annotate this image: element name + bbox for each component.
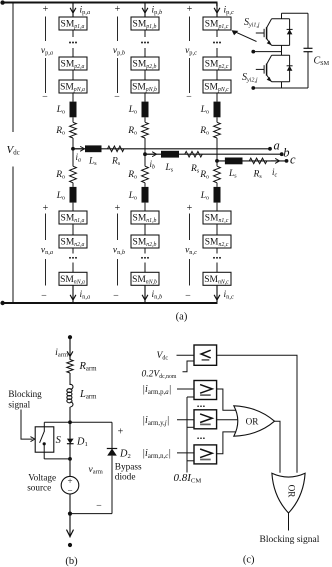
current arrow i_p,c (216, 3, 218, 17)
transistor S_yi1 upper IGBT (256, 19, 293, 46)
voltage v_p,b measurement line (117, 17, 119, 42)
wire (72, 70, 74, 80)
svg-text:+: + (115, 203, 121, 214)
wire 0.8ICM rail (186, 397, 188, 473)
transistor S_yi2 lower IGBT (256, 55, 293, 82)
submodule SM_n2,b (131, 235, 159, 248)
wire input 2 (177, 419, 194, 421)
wire threshold stub 2 (187, 426, 194, 428)
dots lower arm b (141, 257, 143, 259)
dots upper arm a (69, 42, 71, 44)
submodule SM_nN,c (203, 272, 231, 285)
wire (216, 248, 218, 254)
wire (72, 203, 74, 211)
switch S blade and contact (43, 427, 45, 431)
wire (144, 263, 146, 273)
node bottom-left bus terminal (0, 301, 4, 305)
wire (216, 203, 218, 211)
wire threshold stub 1 (187, 396, 194, 398)
resistor R_o lower c (214, 166, 221, 183)
capacitor C_SM (307, 13, 309, 48)
svg-text:c: c (290, 153, 296, 167)
submodule SM_n1,b (131, 211, 159, 224)
current arrow i_n,b (144, 286, 146, 303)
svg-text:+: + (43, 203, 49, 214)
wire (144, 183, 146, 187)
resistor R_o upper a (70, 122, 77, 138)
wire 0.2Vdc threshold input (183, 361, 195, 372)
wire half-bridge midpoint (281, 45, 283, 55)
voltage v_n,a measurement line (45, 214, 47, 241)
svg-text:+: + (187, 4, 193, 15)
wire top DC bus (2, 1, 218, 3)
node top-left bus terminal (0, 0, 4, 4)
wire (72, 248, 74, 254)
diode D1 (67, 439, 74, 444)
svg-text:+: + (187, 203, 193, 214)
submodule SM_nN,a (59, 272, 87, 285)
svg-text:OR: OR (246, 416, 260, 426)
wire comparator output to OR (217, 355, 297, 473)
wire (216, 48, 218, 57)
OR gate 2 (output) (272, 473, 305, 513)
comparator |i_arm| box 2 (194, 410, 217, 429)
submodule SM_p1,c (203, 17, 231, 30)
svg-text:+: + (67, 476, 72, 486)
svg-text:−: − (185, 291, 191, 302)
inductor L_arm (69, 373, 71, 385)
wire input 1 (177, 388, 194, 390)
wire output c (217, 160, 287, 162)
svg-text:+: + (118, 427, 124, 438)
comparator <= symbol (201, 350, 211, 358)
node bottom terminal (251, 86, 255, 90)
svg-text:Blocking signal: Blocking signal (260, 535, 320, 545)
wire (144, 117, 146, 122)
wire (144, 248, 146, 254)
wire (72, 183, 74, 187)
annotation arrow to SM_p1,c (235, 32, 257, 42)
node junction b (143, 152, 147, 156)
inductor L_o upper a (70, 102, 77, 118)
resistor R_arm (67, 360, 73, 374)
resistor R_s c (249, 158, 267, 164)
svg-text:S: S (56, 435, 62, 446)
wire (216, 263, 218, 273)
comparator >= symbol 1 (200, 385, 212, 394)
wire OR1 output (275, 421, 281, 473)
svg-text:signal: signal (8, 400, 30, 410)
submodule SM_n1,a (59, 211, 87, 224)
submodule SM_p2,b (131, 57, 159, 70)
voltage v_n,b measurement line (117, 214, 119, 241)
wire output b (145, 153, 282, 155)
wire (216, 183, 218, 187)
wire (69, 407, 71, 439)
submodule SM_pN,b (131, 80, 159, 93)
wire top of half-bridge (281, 13, 283, 19)
svg-text:OR: OR (287, 485, 297, 499)
comparator |i_arm| box 1 (194, 381, 217, 400)
submodule SM_p2,c (203, 57, 231, 70)
node switch branch top (68, 420, 72, 424)
wire (144, 70, 146, 80)
dots lower arm c (213, 257, 215, 259)
submodule SM_n2,c (203, 235, 231, 248)
wire (144, 224, 146, 235)
wire (72, 263, 74, 273)
svg-text:b: b (283, 146, 289, 160)
wire comparator1 out (217, 389, 236, 410)
wire (216, 93, 218, 102)
submodule SM_nN,b (131, 272, 159, 285)
voltage v_n,c measurement line (189, 214, 191, 241)
current arrow i_arm (69, 337, 71, 360)
node midpoint terminal (251, 50, 255, 54)
switch S box (35, 427, 54, 452)
wire (216, 70, 218, 80)
wire to switch branch (44, 421, 70, 423)
svg-text:−: − (186, 92, 192, 103)
wire (144, 30, 146, 37)
current arrow i_n,a (72, 286, 74, 303)
wire (144, 93, 146, 102)
wire (72, 48, 74, 57)
wire output a (73, 148, 270, 150)
wire (72, 93, 74, 102)
inductor L_o lower b (142, 187, 149, 203)
resistor R_s a (108, 146, 125, 152)
OR gate 1 (234, 406, 275, 436)
inductor L_s a (85, 145, 102, 152)
wire (72, 30, 74, 37)
voltage V_dc measurement line (12, 3, 14, 132)
wire (216, 117, 218, 122)
current arrow i_p,b (144, 3, 146, 17)
node junction c (215, 159, 219, 163)
submodule SM_pN,c (203, 80, 231, 93)
svg-text:Blocking: Blocking (8, 389, 42, 399)
inductor L_s c (225, 158, 243, 165)
svg-text:Bypass: Bypass (115, 463, 142, 473)
current arrow i_a (75, 148, 83, 150)
inductor L_o upper b (142, 102, 149, 118)
resistor R_s b (185, 151, 203, 157)
current arrow i_b (147, 153, 155, 155)
wire (144, 48, 146, 57)
submodule SM_n2,a (59, 235, 87, 248)
node arm input terminal (68, 335, 72, 339)
svg-text:−: − (42, 92, 48, 103)
node terminal c (285, 159, 289, 163)
wire phase rail (72, 138, 74, 166)
blocking signal arrow (21, 410, 33, 440)
svg-text:source: source (27, 483, 51, 493)
wire from switch to node (43, 452, 45, 459)
wire phase rail (144, 138, 146, 166)
svg-text:(a): (a) (176, 312, 188, 323)
dots between comparators 1-2 (197, 405, 199, 407)
current arrow i_n,c (216, 286, 218, 303)
svg-text:−: − (114, 92, 120, 103)
resistor R_o upper b (142, 122, 149, 138)
submodule SM_n1,c (203, 211, 231, 224)
resistor R_o lower b (142, 166, 149, 183)
svg-text:a: a (274, 139, 280, 153)
comparator V_dc box (194, 345, 217, 365)
wire bottom of half-bridge (281, 82, 283, 88)
voltage v_p,a measurement line (45, 17, 47, 42)
dots lower arm a (69, 257, 71, 259)
submodule SM_pN,a (59, 80, 87, 93)
submodule SM_p2,a (59, 57, 87, 70)
inductor L_o upper c (214, 102, 221, 118)
resistor R_o lower a (70, 166, 77, 183)
dots upper arm c (213, 42, 215, 44)
svg-text:−: − (41, 291, 47, 302)
dots between comparators 2-3 (197, 437, 199, 439)
wire phase rail (216, 138, 218, 166)
node arm output (68, 511, 72, 515)
wire input 3 (177, 452, 194, 454)
comparator >= symbol 2 (200, 414, 212, 423)
wire blocking signal output (288, 513, 290, 531)
wire (69, 444, 71, 477)
current arrow i_p,a (72, 3, 74, 17)
submodule SM_p1,b (131, 17, 159, 30)
node junction a (71, 147, 75, 151)
wire (72, 224, 74, 235)
current arrow arm output (69, 514, 71, 538)
svg-text:+: + (115, 4, 121, 15)
diode D2 bypass branch (70, 421, 112, 423)
svg-text:+: + (43, 4, 49, 15)
inductor L_o lower c (214, 187, 221, 203)
wire (72, 117, 74, 122)
wire V_dc input (177, 354, 195, 356)
voltage v_p,c measurement line (189, 17, 191, 42)
svg-text:(b): (b) (65, 556, 78, 567)
node below D1 (68, 457, 72, 461)
svg-text:(c): (c) (243, 555, 255, 566)
wire (216, 30, 218, 37)
wire comparator2 out (217, 419, 239, 421)
svg-text:−: − (96, 501, 102, 512)
wire threshold stub 3 (187, 460, 194, 462)
inductor L_o lower a (70, 187, 77, 203)
comparator >= symbol 3 (200, 449, 212, 458)
wire bottom DC bus (2, 302, 218, 304)
submodule SM_p1,a (59, 17, 87, 30)
voltage source (61, 476, 79, 494)
svg-text:Voltage: Voltage (28, 473, 56, 483)
resistor R_o upper c (214, 122, 221, 138)
wire (144, 203, 146, 211)
node terminal a (268, 147, 272, 151)
svg-text:diode: diode (115, 473, 136, 483)
wire (69, 494, 71, 514)
dots upper arm b (141, 42, 143, 44)
comparator |i_arm| box 3 (194, 445, 217, 464)
wire comparator3 out (217, 432, 236, 454)
wire (216, 224, 218, 235)
svg-text:−: − (113, 291, 119, 302)
current arrow i_c (271, 160, 278, 162)
node terminal b (280, 152, 284, 156)
inductor L_s b (161, 151, 179, 158)
